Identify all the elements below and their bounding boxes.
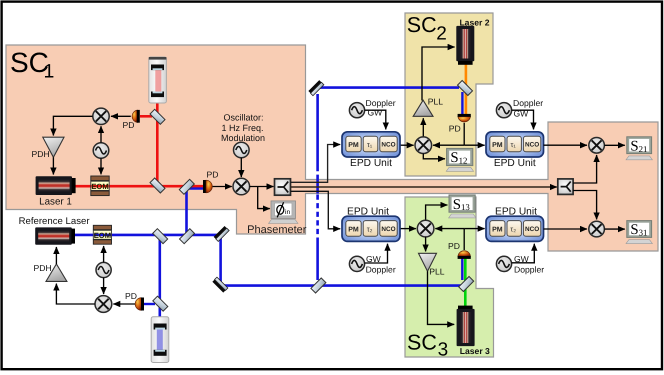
photodiode PD4 (dome down) xyxy=(458,114,471,122)
wire OSC-A to EPD-A NCO xyxy=(365,110,386,129)
wire MX7 to S31 xyxy=(604,228,624,230)
mixer MX6 xyxy=(589,138,605,154)
svg-text:31: 31 xyxy=(639,228,648,238)
svg-text:Laser 3: Laser 3 xyxy=(460,346,490,356)
svg-text:EOM: EOM xyxy=(91,182,108,191)
oscillator OSC-A (Doppler/GW, EPD-A) xyxy=(349,103,364,118)
mixer MX3 xyxy=(233,178,250,195)
svg-text:2: 2 xyxy=(436,24,447,45)
op-amp PLL1 (up-pointing) xyxy=(413,100,433,116)
beamsplitter BS7 (SC2 combiner) xyxy=(458,81,473,96)
wire OSC1 up to MX1 xyxy=(100,126,102,143)
svg-text:NCO: NCO xyxy=(381,226,395,233)
svg-text:τ₁: τ₁ xyxy=(367,140,373,149)
svg-text:Doppler: Doppler xyxy=(366,98,396,108)
photodiode PD2 (phasemeter input) xyxy=(203,180,212,193)
svg-text:PM: PM xyxy=(492,142,503,149)
monitor S21 xyxy=(626,137,652,160)
beamsplitter BS2 (red/blue combiner) xyxy=(179,179,194,194)
wire beat line to MX5 (left arrow) and EPD-D (right arrow) xyxy=(435,228,464,230)
svg-text:PM: PM xyxy=(348,226,359,233)
laser L2 (vertical) xyxy=(456,26,474,65)
svg-text:S: S xyxy=(630,222,638,238)
beam blue: vertical inter-SC line solid upper xyxy=(316,94,319,166)
wire branch to phi-in monitor xyxy=(258,187,270,209)
svg-text:Oscillator:: Oscillator: xyxy=(223,113,263,123)
svg-text:12: 12 xyxy=(459,156,468,166)
mixer MX4 xyxy=(415,137,432,154)
svg-text:GW: GW xyxy=(368,108,384,118)
cavity CAV1 (top reference cavity) xyxy=(149,57,167,103)
wire PD3 to MX2 xyxy=(113,303,135,305)
laser L3 (vertical) xyxy=(457,306,475,347)
svg-text:EPD Unit: EPD Unit xyxy=(495,206,537,217)
EPD unit B (SC2 side, S21 row) xyxy=(486,132,544,157)
photodiode PD1 xyxy=(132,110,140,123)
wire MX1 to PDH1 amplifier xyxy=(53,116,92,135)
svg-text:τ₂: τ₂ xyxy=(367,224,373,233)
wire EPD-C NCO to MX5 xyxy=(400,228,416,230)
label SC3 xyxy=(407,330,448,360)
oscillator OSC-C (GW/Doppler, EPD-C) xyxy=(349,256,364,271)
label oscillator text xyxy=(221,113,265,143)
cavity CAV2 (lower reference cavity) xyxy=(151,317,169,363)
label SC1 xyxy=(10,47,54,83)
oscillator OSC-D (GW/Doppler, EPD-D) xyxy=(496,256,511,271)
svg-text:PD: PD xyxy=(207,169,219,179)
wire EPD-A NCO to MX4 xyxy=(400,144,414,146)
wire splitter bottom output to EPD-C xyxy=(291,191,341,229)
photodiode PD5 (dome up) xyxy=(458,251,471,259)
wire EPD-B NCO to MX6 xyxy=(544,144,588,146)
mixer MX7 xyxy=(589,221,605,237)
far-side splitter box xyxy=(558,179,573,195)
svg-text:PLL: PLL xyxy=(429,266,445,276)
svg-text:PDH: PDH xyxy=(34,263,52,273)
svg-text:EOM: EOM xyxy=(94,231,111,240)
beam green: laser3 up to PD5 xyxy=(464,258,467,307)
svg-text:GW: GW xyxy=(514,109,530,119)
wire splitter mid output to far-side splitter xyxy=(291,186,557,188)
svg-text:SC: SC xyxy=(407,13,437,37)
EPD unit C (SC1 side, S13 row) xyxy=(342,216,400,241)
beam blue: BS7 down to PD4 xyxy=(461,92,463,115)
svg-text:PD: PD xyxy=(123,120,135,130)
svg-text:1 Hz Freq.: 1 Hz Freq. xyxy=(221,123,263,133)
wire beat line to MX4 (left arrow) and EPD-B (right arrow) xyxy=(433,144,464,146)
svg-text:SC: SC xyxy=(407,330,437,354)
beam blue: BS2 down to ref-row splitter2 xyxy=(185,188,188,235)
EPD unit D (SC3 side, S31 row) xyxy=(486,216,544,241)
beam blue: top long horizontal to SC2 xyxy=(317,86,459,89)
mirror M4 (bottom-left corner mirror) xyxy=(212,277,227,292)
op-amp PDH2 (up-pointing) xyxy=(46,264,67,281)
laser L4 (reference laser) xyxy=(35,227,75,244)
svg-text:S: S xyxy=(630,138,638,154)
wire MX5 up to S13 monitor xyxy=(426,205,448,220)
svg-text:GW: GW xyxy=(366,254,382,264)
wire far splitter up to MX6 xyxy=(573,155,597,183)
EOM E1 xyxy=(91,176,109,196)
photodiode PD3 xyxy=(135,298,144,311)
monitor S31 xyxy=(626,221,652,244)
EOM E2 xyxy=(93,225,111,244)
svg-text:EPD Unit: EPD Unit xyxy=(350,158,392,169)
oscillator OSC2 xyxy=(96,262,111,277)
beam blue: vertical inter-SC line solid lower xyxy=(316,240,319,280)
wire OSC2 down to MX2 xyxy=(103,278,105,294)
wire PD1 to mixer MX1 xyxy=(111,115,131,117)
oscillator OSC-B (Doppler/GW, EPD-B) xyxy=(496,103,511,118)
svg-text:Doppler: Doppler xyxy=(366,264,396,274)
beam red: laser1 output along y=186 xyxy=(74,185,206,188)
monitor S13 xyxy=(449,195,476,218)
wire MX2 to PDH2 xyxy=(56,284,94,304)
oscillator OSC1 xyxy=(93,143,109,159)
svg-text:PM: PM xyxy=(492,226,503,233)
op-amp PLL2 (down-pointing) xyxy=(419,253,437,271)
svg-text:PD: PD xyxy=(449,124,461,134)
op-amp PDH1 (down-pointing) xyxy=(43,137,64,157)
monitor phi-in xyxy=(269,201,299,224)
svg-text:Doppler: Doppler xyxy=(514,264,544,274)
mixer MX5 xyxy=(417,220,434,237)
beam blue: vertical inter-SC line dashed middle xyxy=(316,166,319,180)
svg-text:1: 1 xyxy=(44,61,55,83)
wire OSC-C to EPD-C NCO xyxy=(365,244,388,263)
spacecraft SC1 region (salmon, with phasemeter notch, inter-SC band and far craft box) xyxy=(6,45,658,251)
svg-text:in: in xyxy=(285,209,290,216)
label SC2 xyxy=(407,13,447,44)
wire EPD-D NCO to MX7 xyxy=(544,228,588,230)
wire PLL2 to laser L3 xyxy=(428,271,455,324)
beam orange: laser2 down to PD4 xyxy=(465,64,468,115)
svg-text:Doppler: Doppler xyxy=(513,98,543,108)
svg-text:Reference Laser: Reference Laser xyxy=(19,216,91,227)
beam blue: stub BS3 to PD3 xyxy=(144,303,155,305)
svg-text:τ₂: τ₂ xyxy=(510,224,516,233)
svg-text:S: S xyxy=(450,150,458,166)
beamsplitter BS4 (ref row splitter1) xyxy=(153,229,168,244)
beamsplitter BS6 (SC1 bottom link splitter) xyxy=(311,278,326,293)
wire PD5 up to beat line xyxy=(463,229,465,250)
beamsplitter BS8 (SC3 combiner) xyxy=(459,277,474,292)
wire MX3 to phasemeter splitter xyxy=(250,186,274,188)
wire MX4 down to S12 monitor xyxy=(423,154,445,159)
wire OSC-B to EPD-B NCO xyxy=(512,110,534,129)
wire far splitter down to MX7 xyxy=(573,191,597,220)
wire MX4 up to PLL1 xyxy=(422,118,424,137)
mixer MX1 xyxy=(93,108,109,124)
beam blue: splitter1 down to BS3 and cavity2 xyxy=(159,237,162,325)
svg-text:EPD Unit: EPD Unit xyxy=(494,158,536,169)
beam blue: BS8 up to PD5 xyxy=(461,258,463,281)
wire PDH2 to reference laser xyxy=(55,247,57,264)
svg-text:PD: PD xyxy=(125,291,137,301)
svg-text:GW: GW xyxy=(514,254,530,264)
wire PLL1 to laser L2 xyxy=(422,47,455,101)
svg-text:NCO: NCO xyxy=(381,142,395,149)
spacecraft SC3 box (green) xyxy=(405,197,494,357)
wire PD2 to mixer MX3 xyxy=(213,186,232,188)
svg-text:13: 13 xyxy=(461,202,470,212)
mixer MX2 xyxy=(95,296,112,313)
svg-text:PLL: PLL xyxy=(428,97,444,107)
oscillator OSC3 (1 Hz modulation) xyxy=(234,142,250,158)
beam blue: reference laser output along y=234.9 xyxy=(73,234,222,237)
wire splitter top output to EPD-A xyxy=(291,145,341,183)
phasemeter output splitter box xyxy=(275,179,291,195)
spacecraft SC2 box (yellow) xyxy=(405,13,493,176)
beamsplitter BS1b (laser1 / cavity arm) xyxy=(150,178,165,193)
beamsplitter BS5 (ref row splitter2) xyxy=(180,229,195,244)
beam blue: mirror3 down to mirror4 xyxy=(219,235,222,286)
svg-text:NCO: NCO xyxy=(525,226,539,233)
wire MX6 to S21 xyxy=(604,144,624,146)
svg-text:PD: PD xyxy=(448,241,460,251)
svg-text:PDH: PDH xyxy=(32,149,50,159)
beam red: stub to PD1 xyxy=(140,115,152,118)
svg-text:21: 21 xyxy=(639,144,648,154)
svg-text:PM: PM xyxy=(348,142,359,149)
wire PDH1 to laser L1 xyxy=(52,157,54,174)
wire OSC-D to EPD-D NCO xyxy=(512,244,535,263)
beam blue: stub into PD2 below red xyxy=(187,187,206,189)
wire PD4 down to beat line xyxy=(463,123,465,145)
wire OSC3 down to MX3 xyxy=(240,158,242,177)
beam red: cavity arm vertical x=157.3 xyxy=(156,96,159,187)
wire OSC2 up to EOM2 xyxy=(103,246,105,262)
laser L1 xyxy=(36,176,76,195)
monitor S12 xyxy=(446,148,473,171)
beam blue: bottom long horizontal to SC3 xyxy=(221,284,466,287)
svg-text:Modulation: Modulation xyxy=(221,133,265,143)
wire MX5 down to PLL2 xyxy=(425,237,427,252)
beamsplitter BS1a (cavity pickoff) xyxy=(150,109,165,124)
EPD unit A (SC1 side, S12 row) xyxy=(342,132,400,157)
wire OSC1 down to EOM1 xyxy=(100,158,102,174)
mirror M1 (top-left, into vertical link) xyxy=(308,80,323,95)
svg-text:τ₁: τ₁ xyxy=(510,140,516,149)
svg-text:NCO: NCO xyxy=(525,142,539,149)
beamsplitter BS3 (to lower cavity) xyxy=(153,296,168,311)
svg-text:Laser 1: Laser 1 xyxy=(39,196,72,207)
svg-text:S: S xyxy=(453,197,461,213)
svg-text:Phasemeter: Phasemeter xyxy=(247,224,307,236)
mirror M3 (ref row full mirror) xyxy=(214,226,229,241)
svg-text:EPD Unit: EPD Unit xyxy=(347,206,389,217)
svg-text:3: 3 xyxy=(438,339,449,360)
